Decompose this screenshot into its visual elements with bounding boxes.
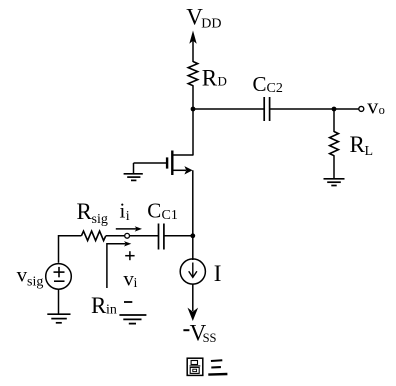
ground (gate) — [124, 174, 143, 181]
node drain junction dot — [191, 107, 196, 112]
char 圖 top small box — [191, 361, 197, 365]
transistor M1 drain lead — [172, 154, 193, 156]
resistor RL — [330, 132, 339, 156]
wire CC2 to output node — [270, 108, 334, 110]
label vsig — [17, 262, 44, 289]
ground (RL) — [324, 179, 345, 186]
label minus (vi) — [124, 301, 132, 303]
svg-text:v: v — [367, 94, 378, 119]
char 三 bottom stroke — [208, 373, 227, 376]
transistor M1 channel bar — [171, 151, 173, 176]
wire input node to CC1 — [130, 235, 158, 237]
vsig minus — [54, 280, 65, 282]
svg-text:L: L — [365, 144, 374, 159]
wire Rsig to input node — [106, 235, 125, 237]
svg-text:C2: C2 — [267, 81, 283, 96]
svg-text:sig: sig — [27, 275, 43, 290]
current source I circle — [180, 259, 205, 284]
label vi — [123, 267, 137, 292]
wire gate drop — [133, 163, 135, 174]
svg-text:DD: DD — [201, 17, 221, 32]
wire source down to CC1 node — [192, 170, 194, 260]
svg-text:C: C — [253, 72, 267, 96]
transistor M1 gate bar — [166, 157, 168, 168]
svg-text:v: v — [17, 262, 28, 286]
node input open circle — [125, 233, 130, 238]
char 三 top stroke — [211, 359, 222, 362]
svg-text:i: i — [126, 209, 130, 224]
svg-text:sig: sig — [92, 212, 108, 227]
wire output node to vo terminal — [334, 108, 359, 110]
svg-text:i: i — [120, 198, 126, 222]
terminal vo open circle — [359, 106, 364, 111]
ground (vsig) — [47, 314, 70, 323]
label vo — [367, 94, 385, 119]
svg-text:o: o — [379, 103, 385, 117]
label CC2 — [253, 72, 283, 96]
svg-text:i: i — [134, 276, 138, 291]
wire RD to drain node — [192, 85, 194, 155]
svg-text:SS: SS — [203, 331, 217, 345]
caption 圖三 (drawn strokes) — [187, 358, 227, 375]
label CC1 — [147, 198, 178, 222]
vsig plus — [54, 267, 65, 277]
char 圖 outer box — [187, 358, 203, 375]
power VDD arrow — [189, 31, 196, 63]
svg-text:in: in — [106, 303, 117, 318]
resistor RD — [188, 62, 198, 86]
svg-text:R: R — [350, 132, 366, 157]
Rin arrow (bent) — [107, 241, 131, 288]
svg-text:C1: C1 — [162, 208, 178, 223]
current source I arrow — [189, 263, 197, 278]
svg-text:R: R — [77, 199, 93, 224]
label Rin — [91, 293, 117, 318]
wire current source to VSS arrow — [192, 284, 194, 311]
label plus (vi) — [125, 251, 134, 260]
node VDD label — [186, 5, 221, 32]
capacitor CC1 — [159, 224, 164, 250]
svg-text:I: I — [214, 261, 222, 286]
transistor M1 source lead with arrow — [172, 166, 192, 174]
svg-text:R: R — [91, 293, 107, 318]
label RL — [350, 132, 374, 159]
svg-text:R: R — [202, 65, 218, 90]
source vsig circle — [46, 264, 72, 290]
wire drain node to CC2 — [193, 108, 264, 110]
wire CC1 to junction — [164, 235, 193, 237]
char 圖 middle box — [190, 367, 199, 373]
resistor Rsig — [81, 231, 105, 241]
label RD — [202, 65, 227, 90]
wire vsig corner to Rsig — [59, 236, 82, 263]
transistor M1 gate lead — [134, 162, 167, 164]
label -VSS — [183, 321, 216, 346]
capacitor CC2 — [264, 97, 269, 121]
node CC1 junction dot — [190, 233, 195, 238]
char 圖 inner box — [193, 369, 197, 371]
power -VSS arrow — [188, 308, 199, 321]
wire vsig to ground — [58, 289, 60, 314]
wire RL to ground — [333, 155, 335, 178]
label Rsig — [77, 199, 108, 227]
node output junction dot — [332, 107, 337, 112]
label ii with arrow — [116, 198, 142, 231]
char 三 middle stroke — [211, 366, 221, 368]
char 圖 middle line — [190, 365, 201, 367]
ground (vi reference) — [119, 315, 146, 324]
wire output node to RL — [333, 109, 335, 132]
svg-text:C: C — [147, 198, 161, 222]
svg-text:D: D — [218, 74, 227, 89]
